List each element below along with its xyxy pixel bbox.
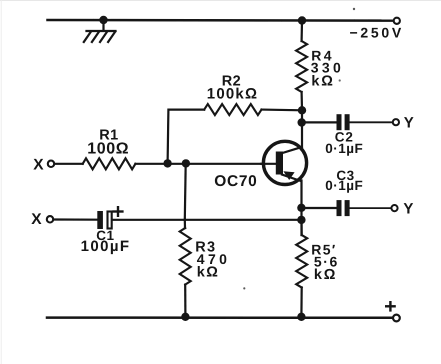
wire C1 to R3 node bbox=[113, 219, 185, 221]
junction node B (base/C1 branch) bbox=[182, 159, 190, 167]
wire top -250V rail bbox=[48, 19, 394, 22]
capacitor C2 bbox=[337, 114, 350, 130]
wire C3 left bbox=[301, 207, 336, 209]
junction ground-rail bbox=[99, 16, 107, 24]
junction R5/bottom rail bbox=[297, 313, 305, 321]
polarity + of C1 bbox=[114, 207, 123, 216]
svg-text:100kΩ: 100kΩ bbox=[207, 85, 258, 102]
terminal Y lower bbox=[391, 205, 397, 211]
ground bbox=[84, 20, 116, 42]
terminal X lower bbox=[47, 216, 53, 222]
resistor R2 bbox=[204, 104, 261, 115]
pin collector bbox=[282, 147, 302, 153]
junction R3/bottom rail bbox=[181, 313, 189, 321]
svg-text:100µF: 100µF bbox=[81, 238, 131, 255]
svg-text:X: X bbox=[31, 211, 42, 228]
wire R5 to bottom rail bbox=[300, 288, 303, 317]
svg-text:OC70: OC70 bbox=[214, 173, 257, 190]
wire emitter vertical bbox=[300, 181, 302, 236]
terminal + (bottom right) bbox=[393, 315, 400, 322]
wire R3 to bottom rail bbox=[184, 285, 186, 317]
junction emitter/bias tie bbox=[297, 216, 305, 224]
wire collector vertical bbox=[301, 110, 303, 148]
wire node A up to R2 bbox=[168, 110, 205, 164]
svg-text:kΩ: kΩ bbox=[311, 74, 334, 90]
resistor R3 bbox=[180, 228, 191, 285]
terminal X upper bbox=[48, 161, 54, 167]
terminal -250V bbox=[394, 18, 400, 24]
wire bottom + rail bbox=[47, 316, 393, 319]
wire C3 to Y bbox=[350, 207, 391, 209]
wire R5 top stub bbox=[300, 220, 302, 235]
terminal Y upper bbox=[393, 119, 399, 125]
resistor R4 bbox=[296, 41, 307, 92]
wire X1 to R1 bbox=[55, 163, 83, 165]
wire R1 to base node bbox=[135, 163, 277, 165]
wire R3 top stub bbox=[184, 220, 186, 228]
svg-text:0·1µF: 0·1µF bbox=[325, 178, 363, 193]
resistor R1 bbox=[83, 158, 136, 169]
svg-text:−250V: −250V bbox=[350, 24, 404, 40]
wire node B down to C1/R3 junction bbox=[184, 163, 187, 219]
capacitor C3 bbox=[337, 200, 350, 216]
pin emitter bbox=[282, 175, 301, 181]
svg-text:kΩ: kΩ bbox=[314, 267, 337, 283]
junction node A (R1/R2) bbox=[163, 159, 171, 167]
wire R4 to R2 node bbox=[301, 92, 304, 110]
svg-text:0·1µF: 0·1µF bbox=[325, 141, 363, 156]
svg-text:100Ω: 100Ω bbox=[87, 141, 129, 158]
svg-text:Y: Y bbox=[403, 201, 413, 218]
transistor Q1 OC70 bbox=[261, 141, 307, 184]
wire C2 to Y bbox=[350, 121, 393, 123]
svg-text:kΩ: kΩ bbox=[197, 264, 220, 280]
wire C2 left bbox=[302, 121, 337, 123]
polarity + of bottom terminal bbox=[386, 302, 394, 310]
resistor R5 bbox=[296, 235, 307, 288]
junction R4 top on rail bbox=[298, 16, 306, 24]
junction C3/emitter bbox=[297, 204, 305, 212]
wire bias tie (C1/R3 node to emitter node) bbox=[185, 219, 302, 221]
junction R2/collector bbox=[298, 106, 306, 114]
junction C2/collector bbox=[298, 118, 306, 126]
capacitor C1 (electrolytic) bbox=[97, 211, 111, 229]
wire R2 to collector node bbox=[262, 108, 303, 111]
wire X2 to C1 bbox=[54, 218, 98, 220]
svg-text:Y: Y bbox=[404, 115, 414, 132]
svg-text:X: X bbox=[33, 156, 44, 173]
wire rail to R4 bbox=[301, 21, 304, 42]
